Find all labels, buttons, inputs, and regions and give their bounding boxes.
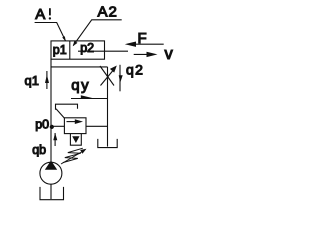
wire valve top edge [51,66,108,68]
flow arrow q1 [46,71,48,89]
flow arrow qy [71,98,108,100]
flow arrow q2 [119,65,121,92]
pilot line [56,109,65,119]
piston rod [78,50,128,52]
relief valve spring [63,148,83,162]
leader A1 [35,23,66,42]
wire supply line left [50,59,52,162]
relief valve drain port [70,134,81,146]
relief valve adjust arrow [61,152,82,164]
piston [69,41,71,59]
cylinder body [51,41,105,59]
tank T1 (pump) [40,187,64,200]
node p0 [50,125,54,129]
wire pump to tank [50,184,52,199]
svg-text:v: v [165,45,174,63]
force arrow F [128,43,164,45]
relief valve body [64,118,86,134]
wire node to valve [51,125,64,127]
relief valve flow arrow [67,121,78,123]
svg-text:p0: p0 [35,118,49,132]
relief valve drain arrow [72,136,79,143]
pilot bracket [56,104,78,110]
flow arrow qb [54,133,56,146]
svg-text:q1: q1 [25,73,39,88]
pump P [40,162,62,184]
svg-text:A: A [35,6,45,23]
svg-text:A2: A2 [98,3,118,20]
tank T2 (return) [98,139,117,148]
velocity arrow v [134,53,150,55]
svg-text:q2: q2 [126,61,144,77]
svg-text:p1: p1 [53,43,67,57]
wire valve to return [86,125,108,127]
leader A2 [73,20,122,46]
svg-text:qy: qy [71,77,90,94]
svg-text:p2: p2 [80,41,94,55]
wire return line right [107,67,109,147]
svg-text:qb: qb [32,143,46,157]
throttle valve [100,66,114,86]
svg-text:F: F [138,30,147,47]
